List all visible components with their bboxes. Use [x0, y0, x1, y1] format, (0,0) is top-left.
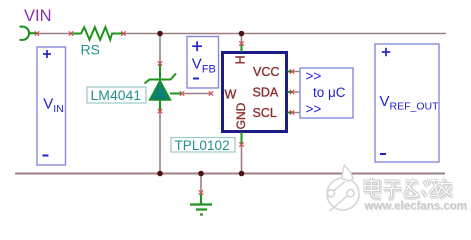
annotation box to uC: [300, 68, 353, 118]
svg-text:GND: GND: [234, 102, 248, 129]
pin VCC stub: [288, 71, 292, 73]
wire GND pin column: [241, 146, 243, 174]
wire SDA to uC: [293, 91, 300, 93]
svg-text:>>: >>: [306, 68, 322, 83]
zener diode LM4041: [145, 64, 182, 111]
wire top rail left segment: [38, 33, 70, 35]
ground symbol: [190, 194, 212, 215]
pin SDA stub: [288, 91, 292, 93]
wire top rail right segment: [125, 33, 447, 35]
connector VIN port: [20, 27, 37, 40]
pin x marks: [35, 31, 294, 194]
minus VIN box: [43, 155, 49, 157]
label box TPL0102: [171, 138, 235, 153]
watermark CJK glyphs (stylized): [365, 178, 453, 200]
junction dot bottom GND pin: [239, 171, 245, 177]
junction dot bottom zener: [157, 171, 163, 177]
svg-text:RS: RS: [81, 42, 100, 58]
wire SCL to uC: [293, 112, 300, 114]
junction dot top H: [239, 31, 245, 37]
minus VREF: [380, 153, 386, 155]
annotation box VREF_OUT: [375, 44, 439, 162]
junction dot top zener: [157, 31, 163, 37]
svg-text:>>: >>: [306, 102, 322, 117]
plus VREF: [382, 48, 390, 56]
wire zener bottom column: [159, 112, 161, 174]
svg-text:TPL0102: TPL0102: [175, 138, 230, 153]
chip TPL0102 body: [223, 53, 287, 132]
svg-text:W: W: [225, 88, 237, 102]
annotation box VIN measure: [37, 47, 66, 165]
wire VCC to uC: [293, 71, 300, 73]
svg-text:SDA: SDA: [253, 85, 279, 99]
watermark logo circle: [327, 165, 359, 211]
wire zener top column: [159, 34, 161, 63]
svg-text:to μC: to μC: [313, 85, 346, 100]
pin GND stub: [241, 133, 243, 144]
label box LM4041: [87, 87, 146, 103]
svg-text:H: H: [234, 55, 248, 64]
wire ground stub: [200, 174, 202, 192]
svg-text:VIN: VIN: [24, 7, 52, 25]
junction dot bottom ground: [198, 171, 204, 177]
wire W tap: [184, 93, 211, 95]
wire bottom ground rail: [15, 173, 445, 175]
svg-text:SCL: SCL: [253, 106, 277, 120]
svg-text:VCC: VCC: [253, 65, 279, 79]
annotation box VFB: [187, 37, 219, 89]
plus VIN box: [43, 50, 51, 58]
minus VFB: [193, 78, 199, 80]
wire H pin column: [241, 34, 243, 43]
svg-text:LM4041: LM4041: [91, 87, 142, 103]
plus VFB: [192, 41, 202, 51]
svg-text:www.elecfans.com: www.elecfans.com: [364, 201, 467, 213]
resistor RS: [73, 27, 123, 40]
pin H stub: [241, 45, 243, 52]
pin SCL stub: [288, 112, 292, 114]
